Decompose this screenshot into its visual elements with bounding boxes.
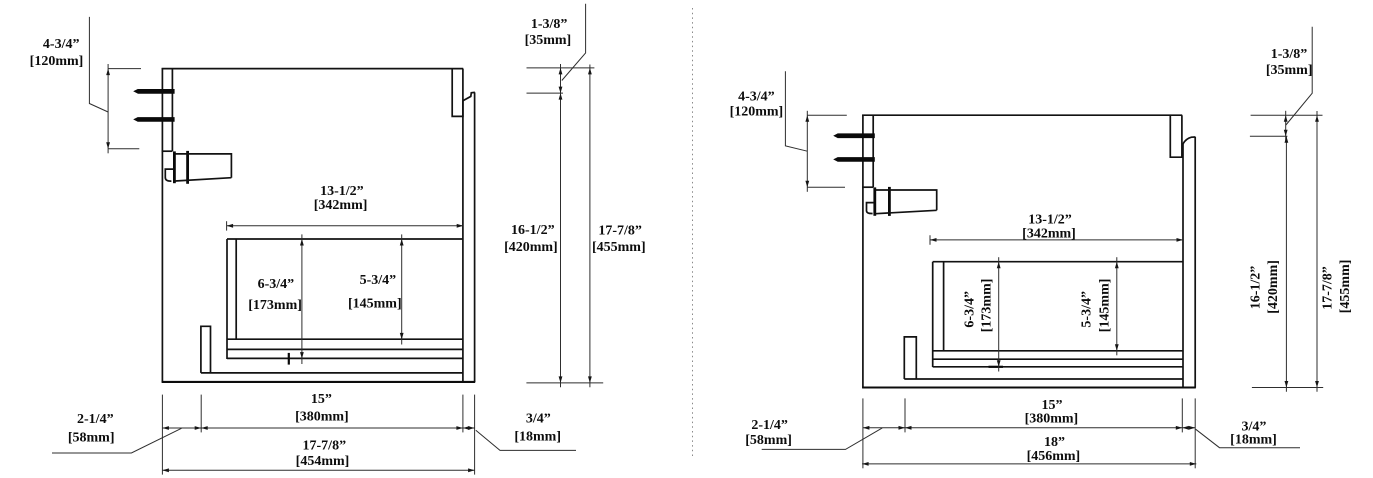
right drawer box left outer <box>932 262 934 367</box>
left cabinet top panel <box>162 68 464 70</box>
dim 2-1/4 leader line <box>52 428 182 453</box>
svg-text:[35mm]: [35mm] <box>1266 63 1313 78</box>
left faucet flange <box>173 151 176 183</box>
svg-text:5-3/4”: 5-3/4” <box>360 273 397 288</box>
dim 2-1/4 and 15 and 3/4 dimension line <box>162 427 474 429</box>
left mounting bolt lower <box>133 117 174 122</box>
svg-text:[58mm]: [58mm] <box>745 433 792 448</box>
left drawer box left outer <box>226 239 228 359</box>
left center tick mark <box>288 353 290 365</box>
right mounting bolt upper <box>833 133 875 138</box>
svg-text:[420mm]: [420mm] <box>504 240 558 255</box>
svg-text:13-1/2”: 13-1/2” <box>1028 212 1072 227</box>
left door outer edge <box>474 92 476 382</box>
svg-text:3/4”: 3/4” <box>526 412 551 427</box>
svg-text:[173mm]: [173mm] <box>980 279 995 333</box>
right door top hook <box>1183 137 1196 144</box>
left faucet body <box>175 154 231 181</box>
right dim 4-3/4 dimension line <box>806 111 808 192</box>
svg-text:[455mm]: [455mm] <box>592 240 646 255</box>
dim 4-3/4 extension lines <box>108 68 141 70</box>
svg-text:[120mm]: [120mm] <box>30 54 84 69</box>
right faucet flange <box>873 187 876 215</box>
svg-text:[145mm]: [145mm] <box>1098 279 1113 333</box>
svg-text:[18mm]: [18mm] <box>514 430 561 445</box>
left drawer rail line 2 <box>227 348 463 350</box>
right dim 5-3/4 dimension line <box>1116 257 1118 355</box>
left cabinet leg <box>201 326 211 373</box>
svg-text:[342mm]: [342mm] <box>1022 227 1076 242</box>
svg-text:17-7/8”: 17-7/8” <box>303 439 347 454</box>
left cabinet left wall inner <box>171 69 173 152</box>
dim 4-3/4 leader line <box>89 17 108 112</box>
right dim 6-3/4 dimension line <box>998 257 1000 371</box>
svg-text:4-3/4”: 4-3/4” <box>738 89 775 104</box>
svg-text:[173mm]: [173mm] <box>248 298 302 313</box>
svg-text:5-3/4”: 5-3/4” <box>1080 291 1095 328</box>
left drawer box left inner <box>235 239 237 339</box>
svg-text:[456mm]: [456mm] <box>1027 449 1081 464</box>
svg-text:[342mm]: [342mm] <box>314 198 368 213</box>
dim right bottom extension line <box>526 382 603 384</box>
svg-text:[35mm]: [35mm] <box>525 33 572 48</box>
svg-text:6-3/4”: 6-3/4” <box>963 291 978 328</box>
left cabinet wall inner cap <box>162 150 173 152</box>
right cabinet leg <box>904 337 916 379</box>
right mounting bolt lower <box>833 157 875 162</box>
right drawer rail line 3 <box>933 366 1183 368</box>
dim 17-7/8 right dimension line <box>589 65 591 388</box>
right cabinet top-right notch <box>1170 115 1182 157</box>
left mounting bolt upper <box>133 89 174 94</box>
right dim 2-1/4 leader line <box>762 428 883 450</box>
svg-text:4-3/4”: 4-3/4” <box>43 37 80 52</box>
right dim 3/4 leader line <box>1196 429 1300 448</box>
left cabinet bottom panel <box>162 381 476 383</box>
dim 1-3/8 leader line <box>562 4 586 81</box>
svg-text:1-3/8”: 1-3/8” <box>1271 47 1308 62</box>
svg-text:2-1/4”: 2-1/4” <box>77 412 114 427</box>
right dim bottom extension line <box>1252 387 1323 389</box>
right dim 16-1/2 dimension line <box>1285 136 1287 392</box>
right dim 13-1/2 dimension line <box>930 239 1183 241</box>
svg-text:1-3/8”: 1-3/8” <box>531 17 568 32</box>
right dim 1-3/8 extension lines <box>1251 114 1323 116</box>
dim 1-3/8 extension lines <box>527 67 595 69</box>
right drawer box left inner <box>943 262 945 351</box>
right drawer rail line 2 <box>933 358 1183 360</box>
left door inner edge <box>462 101 464 383</box>
dim 4-3/4 dimension line <box>107 64 109 153</box>
right cabinet wall inner cap <box>862 186 873 188</box>
dim 13-1/2 dimension line <box>227 225 464 227</box>
right door inner edge <box>1182 144 1184 388</box>
svg-text:[454mm]: [454mm] <box>296 454 350 469</box>
left faucet bracket <box>165 169 173 181</box>
right cabinet bottom panel <box>862 386 1196 388</box>
svg-text:17-7/8”: 17-7/8” <box>598 223 642 238</box>
left door top hook <box>463 92 475 100</box>
svg-text:2-1/4”: 2-1/4” <box>751 418 788 433</box>
right cabinet top panel <box>862 114 1182 116</box>
left cabinet recessed bottom <box>201 372 463 374</box>
right drawer box top <box>933 261 1183 263</box>
svg-text:[120mm]: [120mm] <box>730 104 784 119</box>
dim 16-1/2 dimension line <box>560 93 562 387</box>
right drawer rail line 1 <box>933 350 1183 352</box>
svg-text:13-1/2”: 13-1/2” <box>320 184 364 199</box>
right faucet bracket <box>867 203 875 214</box>
right cabinet left wall inner <box>872 115 874 187</box>
left faucet collar <box>186 151 189 184</box>
left bottom extension lines <box>161 395 163 475</box>
svg-text:[145mm]: [145mm] <box>348 296 402 311</box>
left drawer box top <box>227 238 463 240</box>
dotted separator line <box>692 8 694 458</box>
right dim 1-3/8 leader line <box>1286 27 1312 125</box>
svg-text:[18mm]: [18mm] <box>1230 433 1277 448</box>
svg-text:15”: 15” <box>311 392 332 407</box>
svg-text:[58mm]: [58mm] <box>68 431 115 446</box>
right arrow dash mark <box>989 366 1004 368</box>
right dim 4-3/4 leader line <box>785 71 807 151</box>
right dim 17-7/8 dimension line <box>1316 111 1318 392</box>
svg-text:[455mm]: [455mm] <box>1338 260 1353 314</box>
left drawer rail line 3 <box>227 357 463 359</box>
right dim 18 dimension line <box>862 463 1196 465</box>
svg-text:[380mm]: [380mm] <box>295 410 349 425</box>
left cabinet top-right notch <box>452 69 463 117</box>
right dim 1-3/8 dimension line <box>1285 111 1287 141</box>
right cabinet left wall outer <box>862 115 864 388</box>
dim 3/4 leader line <box>476 430 576 450</box>
right faucet collar <box>888 187 891 216</box>
right cabinet recessed bottom <box>904 378 1183 380</box>
dim 1-3/8 dimension line <box>560 64 562 97</box>
dim 5-3/4 dimension line <box>401 234 403 344</box>
svg-text:6-3/4”: 6-3/4” <box>258 277 295 292</box>
left drawer rail line 1 <box>227 338 463 340</box>
dim 17-7/8 bottom dimension line <box>162 469 474 471</box>
svg-text:17-7/8”: 17-7/8” <box>1320 266 1335 310</box>
left cabinet left wall outer <box>161 68 163 382</box>
svg-text:[380mm]: [380mm] <box>1025 411 1079 426</box>
dim 6-3/4 dimension line <box>301 234 303 364</box>
svg-text:18”: 18” <box>1044 435 1065 450</box>
right dim 4-3/4 extension lines <box>807 114 847 116</box>
right dim 2-1/4 15 3/4 dimension line <box>863 427 1195 429</box>
right door outer edge <box>1194 137 1196 388</box>
svg-text:[420mm]: [420mm] <box>1266 260 1281 314</box>
right bottom extension lines <box>862 398 864 468</box>
right faucet body <box>876 190 937 214</box>
svg-text:16-1/2”: 16-1/2” <box>511 223 555 238</box>
svg-text:16-1/2”: 16-1/2” <box>1249 266 1264 310</box>
